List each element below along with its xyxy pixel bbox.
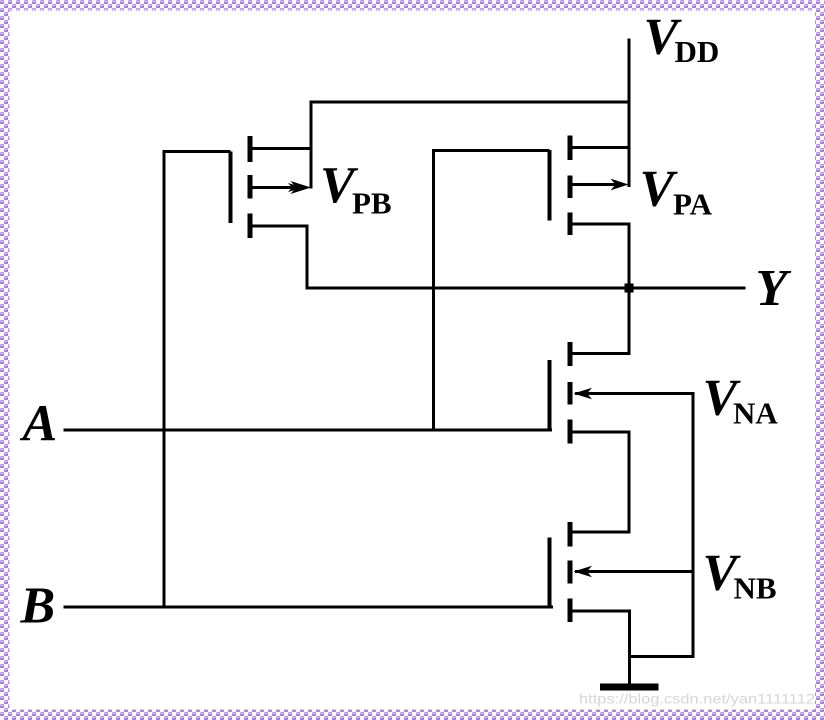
- transistor VNA body arrow: [574, 388, 593, 399]
- transistor VPB channel contacts: [248, 136, 253, 162]
- svg-text:B: B: [20, 578, 56, 635]
- wire VNA body lead: [575, 392, 693, 395]
- transistor VNB gate bar: [548, 538, 552, 609]
- wire VPA body lead: [572, 183, 624, 186]
- svg-text:PA: PA: [673, 187, 713, 222]
- svg-text:NA: NA: [733, 396, 778, 431]
- wire top rail from VPB to VDD: [311, 102, 629, 189]
- ground: [600, 684, 659, 691]
- wire input A line: [64, 429, 553, 432]
- transistor VNB channel contacts: [568, 522, 573, 547]
- svg-text:https://blog.csdn.net/yan11111: https://blog.csdn.net/yan1111112: [579, 691, 815, 707]
- wire VNB body lead: [575, 570, 693, 573]
- label VPA: [640, 161, 713, 222]
- transistor VNA gate bar: [548, 360, 552, 430]
- transistor VPA channel contacts: [568, 136, 573, 161]
- svg-text:NB: NB: [734, 571, 777, 606]
- svg-text:DD: DD: [675, 34, 720, 69]
- transistor VPB gate bar: [229, 152, 233, 224]
- wire body rail down to ground link: [628, 392, 693, 657]
- transistor VPA gate bar: [548, 150, 552, 221]
- wire VPA drain down to Y and VNA drain: [572, 224, 629, 354]
- label VNB: [703, 545, 777, 606]
- svg-text:PB: PB: [352, 186, 392, 221]
- label VDD: [644, 9, 720, 70]
- svg-text:Y: Y: [756, 260, 792, 317]
- wire input B line: [64, 606, 554, 609]
- wire B riser to VPB gate: [164, 152, 231, 608]
- wire VPB drain to Y: [252, 226, 307, 288]
- wire VNA source to VNB drain: [572, 432, 629, 532]
- transistor VNB body arrow: [574, 566, 593, 577]
- wire VPB body lead: [252, 186, 306, 189]
- node Y junction dot: [625, 284, 634, 293]
- transistor VPB body arrow: [291, 181, 312, 194]
- wire A riser to VPA gate: [434, 151, 550, 431]
- wire VDD rail: [628, 39, 631, 188]
- transistor VPA body arrow: [611, 179, 629, 191]
- label VNA: [703, 370, 779, 431]
- transistor VNA channel contacts: [568, 342, 573, 366]
- wire Y output line: [306, 287, 746, 290]
- wire VPA source lead: [572, 146, 629, 149]
- wire VPB source lead: [252, 147, 313, 150]
- wire VNB source to ground: [572, 611, 630, 685]
- svg-text:A: A: [20, 396, 58, 453]
- label VPB: [320, 157, 392, 221]
